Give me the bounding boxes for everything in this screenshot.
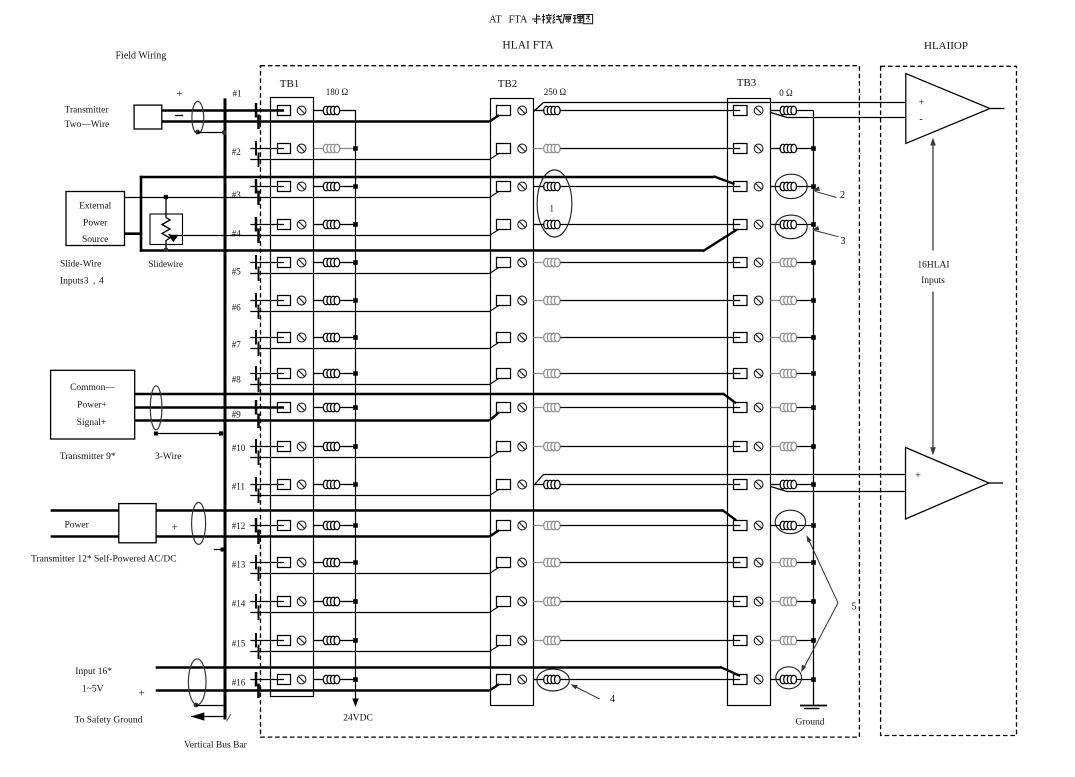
ground symbol — [800, 706, 827, 709]
terminal TB1-13 — [278, 558, 291, 568]
terminal TB3-10 — [734, 442, 748, 452]
bold rail to TB3-4 — [140, 230, 737, 252]
wire TB2-10 to 250 ohm coil — [533, 446, 543, 448]
wire TB3-6 to 0 ohm coil — [771, 300, 781, 302]
screw TB2-6 — [518, 296, 527, 305]
wire TB3-11 to 0 ohm coil — [771, 484, 781, 486]
op-amp U2 output — [989, 482, 1003, 484]
svg-text:Source: Source — [82, 235, 108, 245]
wire 0 ohm coil ch6 to ground bus — [797, 298, 816, 303]
wire TB3-13 to 0 ohm coil — [771, 562, 781, 564]
callout 4 ellipse around 250 ohm ch16 — [537, 669, 569, 691]
callout 4 arrow and label — [571, 684, 616, 705]
inductor 180 ohm ch6 — [323, 296, 339, 305]
wire 0 ohm coil ch2 to ground bus — [797, 146, 816, 151]
callout 3 ellipse around 0 ohm ch4 — [775, 215, 807, 239]
screw TB3-2 — [754, 144, 763, 153]
terminal TB2-2 — [497, 144, 511, 154]
wire TB1-10 to 180 ohm coil — [314, 446, 324, 448]
wire TB2-9 to 250 ohm coil — [533, 407, 543, 409]
svg-text:Transmitter 9*: Transmitter 9* — [60, 452, 116, 462]
wire 180 ohm coil ch14 to 24VDC bus — [340, 599, 358, 604]
wire 0 ohm coil ch7 to ground bus — [797, 335, 816, 340]
inductor 250 ohm ch11 — [544, 480, 560, 489]
wire 0 ohm coil ch1 to ground bus — [797, 110, 814, 112]
wire 180 ohm coil ch4 to 24VDC bus — [340, 222, 358, 227]
wire TB2-14 to 250 ohm coil — [533, 601, 543, 603]
shield drain ch1 to bus bar — [195, 130, 226, 135]
inductor 250 ohm ch7 — [544, 333, 560, 342]
inductor 180 ohm ch11 — [323, 480, 339, 489]
screw TB3-12 — [754, 521, 763, 530]
wire TB2-1 to 250 ohm coil — [533, 110, 543, 112]
screw TB1-1 — [297, 106, 306, 115]
wire TB3-3 to 0 ohm coil — [771, 186, 781, 188]
wire ch5 lower to TB2-5 — [250, 267, 499, 273]
connector pins ch8 — [256, 366, 259, 392]
label #10 — [232, 443, 246, 453]
wire TB3-8 to 0 ohm coil — [771, 373, 781, 375]
terminal TB2-8 — [497, 369, 511, 379]
connector pins ch14 — [256, 594, 259, 620]
wire 180 ohm coil ch2 to 24VDC bus — [340, 146, 358, 151]
wire ch9 Power+ to TB1-9 — [135, 406, 284, 409]
wire 0 ohm coil ch14 to ground bus — [797, 599, 816, 604]
wire ch11 + sense to op-amp U2 — [534, 475, 905, 486]
wire ch1 lower to TB2-1 — [162, 115, 499, 121]
inductor 0 ohm ch16 — [780, 675, 796, 684]
wire ch6 upper stub to TB1-6 — [250, 300, 284, 302]
screw TB1-9 — [297, 403, 306, 412]
wire ch14 lower to TB2-14 — [250, 606, 499, 612]
inductor 250 ohm ch2 — [544, 144, 560, 153]
screw TB2-2 — [518, 144, 527, 153]
wire TB2-12 to 250 ohm coil — [533, 525, 543, 527]
wire 250 ohm coil ch5 to TB3-5 — [560, 262, 740, 264]
callout 3 arrow and label — [812, 226, 846, 247]
svg-text:180 Ω: 180 Ω — [326, 87, 349, 97]
screw TB1-5 — [297, 258, 306, 267]
terminal TB1-11 — [278, 480, 291, 490]
wire ch4 upper stub to TB1-4 — [250, 224, 284, 226]
screw TB3-7 — [754, 333, 763, 342]
screw TB2-11 — [518, 480, 527, 489]
inductor 0 ohm ch2 — [780, 144, 796, 153]
label #6 — [232, 303, 242, 313]
svg-text:Common—: Common— — [70, 383, 115, 393]
terminal TB1-10 — [278, 442, 291, 452]
screw TB3-10 — [754, 442, 763, 451]
wire ch10 lower to TB2-10 — [250, 451, 499, 457]
wire 180 ohm coil ch1 to 24VDC bus — [340, 110, 356, 112]
screw TB3-15 — [754, 636, 763, 645]
title AT FTA wiring diagram — [489, 14, 593, 25]
screw TB1-4 — [297, 220, 306, 229]
inductor 0 ohm ch15 — [780, 636, 796, 645]
bold wire ch16 input - to TB3-16 — [156, 667, 740, 676]
inductor 250 ohm ch10 — [544, 442, 560, 451]
wire TB1-2 to 180 ohm coil — [314, 148, 324, 150]
wire 0 ohm coil ch3 to ground bus — [797, 184, 816, 189]
terminal TB1-3 — [278, 182, 291, 192]
svg-text:TB1: TB1 — [280, 78, 300, 90]
inductor 180 ohm ch4 — [323, 220, 339, 229]
inductor 180 ohm ch16 — [323, 675, 339, 684]
svg-text:TB2: TB2 — [498, 78, 518, 90]
label Slide-Wire Inputs3,4 — [60, 260, 104, 287]
wire ch6 lower to TB2-6 — [250, 305, 499, 311]
bold wire ch12 to TB3-12 — [156, 510, 736, 520]
wire TB1-4 to 180 ohm coil — [314, 224, 324, 226]
wire TB1-11 to 180 ohm coil — [314, 484, 324, 486]
terminal TB1-16 — [278, 675, 291, 685]
inductor 0 ohm ch11 — [780, 480, 796, 489]
inductor 250 ohm ch8 — [544, 369, 560, 378]
svg-text:#5: #5 — [232, 267, 242, 277]
wire 250 ohm coil ch1 to TB3-1 — [560, 110, 740, 112]
connector pins ch10 — [256, 439, 259, 465]
shield drain ch9 to bus bar — [154, 431, 223, 435]
terminal TB2-12 — [497, 521, 511, 531]
screw TB2-7 — [518, 333, 527, 342]
wire 180 ohm coil ch11 to 24VDC bus — [340, 482, 358, 487]
wire ch11 upper stub to TB1-11 — [250, 484, 284, 486]
wire TB2-2 to 250 ohm coil — [533, 148, 543, 150]
to safety ground arrow — [191, 712, 224, 720]
inductor 0 ohm ch9 — [780, 403, 796, 412]
wire stubs left of self-powered box — [51, 511, 119, 537]
terminal TB3-12 — [734, 521, 748, 531]
wire 250 ohm coil ch15 to TB3-15 — [560, 640, 740, 642]
wire 180 ohm coil ch10 to 24VDC bus — [340, 444, 358, 449]
connector pins ch15 — [256, 633, 259, 659]
wire 0 ohm coil ch10 to ground bus — [797, 444, 816, 449]
inductor 250 ohm ch16 — [544, 675, 560, 684]
svg-text:+: + — [139, 688, 145, 700]
wire TB2-15 to 250 ohm coil — [533, 640, 543, 642]
label 0 ohm — [779, 88, 793, 98]
inductor 180 ohm ch14 — [323, 597, 339, 606]
wire TB3-1 to 0 ohm coil — [771, 110, 781, 112]
op-amp U1 — [906, 74, 990, 144]
wire ch16 lower to TB2-16 — [156, 684, 499, 690]
terminal TB3-15 — [734, 636, 748, 646]
svg-text:1: 1 — [550, 204, 555, 214]
terminal TB1-4 — [278, 220, 291, 230]
terminal block TB3 — [728, 77, 771, 706]
svg-text:Field Wiring: Field Wiring — [116, 51, 167, 62]
inductor 0 ohm ch10 — [780, 442, 796, 451]
vertical bus bar — [225, 98, 231, 721]
callout 1 ellipse around 250 ohm ch3/ch4 — [537, 170, 572, 237]
label - ch1 — [175, 115, 183, 117]
svg-text:#13: #13 — [232, 560, 246, 570]
svg-text:2: 2 — [840, 190, 845, 201]
inductor 250 ohm ch14 — [544, 597, 560, 606]
HLAI FTA dashed enclosure — [261, 66, 860, 737]
connector pins ch7 — [256, 330, 259, 356]
terminal block TB1 — [271, 78, 314, 697]
terminal TB2-14 — [497, 597, 511, 607]
screw TB3-13 — [754, 558, 763, 567]
wire TB3-15 to 0 ohm coil — [771, 640, 781, 642]
label #13 — [232, 560, 246, 570]
svg-text:#2: #2 — [232, 147, 241, 157]
inductor 180 ohm ch3 — [323, 182, 339, 191]
wire TB2-5 to 250 ohm coil — [533, 262, 543, 264]
wire TB1-12 to 180 ohm coil — [314, 525, 324, 527]
label #16 — [232, 678, 246, 688]
wire TB2-3 to 250 ohm coil — [533, 186, 543, 188]
label Transmitter Two-Wire — [65, 106, 110, 130]
inductor 180 ohm ch5 — [323, 258, 339, 267]
screw TB2-3 — [518, 182, 527, 191]
svg-text:#3: #3 — [232, 190, 242, 200]
wire ch1 + sense to op-amp U1 — [534, 103, 906, 112]
wire 250 ohm coil ch14 to TB3-14 — [560, 601, 740, 603]
terminal TB2-9 — [497, 403, 511, 413]
inductor 180 ohm ch2 — [323, 144, 339, 153]
wire 250 ohm coil ch3 to TB3-3 — [560, 186, 740, 188]
wire 250 ohm coil ch10 to TB3-10 — [560, 446, 740, 448]
connector pins ch9 — [256, 400, 259, 428]
terminal TB3-13 — [734, 558, 748, 568]
screw TB3-1 — [754, 106, 763, 115]
screw TB3-3 — [754, 182, 763, 191]
label #1 — [233, 89, 242, 99]
terminal TB3-1 — [734, 106, 748, 116]
connector pins ch13 — [256, 555, 259, 581]
wire ch11 - sense to op-amp U2 — [771, 487, 906, 492]
wire 250 ohm coil ch2 to TB3-2 — [560, 148, 740, 150]
wire TB3-10 to 0 ohm coil — [771, 446, 781, 448]
svg-text:Two—Wire: Two—Wire — [65, 120, 110, 130]
HLAIIOP dashed enclosure — [881, 66, 1017, 735]
label External Power Source — [79, 202, 112, 246]
bold riser ch3/ch4 — [140, 176, 143, 252]
wire ch11 lower to TB2-11 — [250, 489, 499, 495]
label #11 — [232, 482, 245, 492]
svg-text:3-Wire: 3-Wire — [155, 452, 182, 462]
svg-text:3: 3 — [840, 236, 845, 247]
svg-text:External: External — [79, 202, 112, 212]
wire 250 ohm coil ch7 to TB3-7 — [560, 337, 740, 339]
inductor 180 ohm ch15 — [323, 636, 339, 645]
wire 180 ohm coil ch8 to 24VDC bus — [340, 371, 358, 376]
connector pins ch11 — [256, 477, 259, 503]
cable marker ellipse ch1 — [192, 101, 204, 133]
label Power ch12 — [65, 521, 90, 531]
svg-text:Power+: Power+ — [77, 401, 107, 411]
label #14 — [232, 599, 246, 609]
wire TB3-2 to 0 ohm coil — [771, 148, 781, 150]
label Common- Power+ Signal+ — [70, 383, 115, 428]
screw TB2-14 — [518, 597, 527, 606]
wire 250 ohm coil ch6 to TB3-6 — [560, 300, 740, 302]
terminal TB3-8 — [734, 369, 748, 379]
svg-text:Input 16*: Input 16* — [75, 667, 112, 677]
terminal TB2-4 — [497, 220, 511, 230]
16HLAI inputs double arrow — [930, 138, 936, 456]
wire ch12 upper stub to TB1-12 — [250, 525, 284, 527]
screw TB3-16 — [754, 675, 763, 684]
wire TB1-6 to 180 ohm coil — [314, 300, 324, 302]
inductor 0 ohm ch4 — [780, 220, 796, 229]
wire ch9 lower to TB2-9 — [135, 412, 499, 420]
terminal TB1-14 — [278, 597, 291, 607]
screw TB1-11 — [297, 480, 306, 489]
terminal TB2-15 — [497, 636, 511, 646]
svg-text:Slidewire: Slidewire — [149, 259, 184, 269]
wire ch13 upper stub to TB1-13 — [250, 562, 284, 564]
svg-text:#10: #10 — [232, 443, 246, 453]
inductor 250 ohm ch9 — [544, 403, 560, 412]
wire external power - to bold riser — [125, 232, 143, 235]
wire TB3-7 to 0 ohm coil — [771, 337, 781, 339]
terminal TB1-7 — [278, 333, 291, 343]
wire ch8 upper stub to TB1-8 — [250, 373, 284, 375]
svg-text:Power: Power — [83, 219, 108, 229]
inductor 0 ohm ch12 — [780, 521, 796, 530]
transmitter self-powered box — [119, 504, 156, 543]
svg-text:4: 4 — [99, 277, 104, 287]
svg-text:#1: #1 — [233, 89, 242, 99]
inductor 0 ohm ch1 — [780, 106, 796, 115]
wire TB1-1 to 180 ohm coil — [314, 110, 324, 112]
wire 0 ohm coil ch13 to ground bus — [797, 560, 816, 565]
cable marker ellipse ch12 — [192, 502, 206, 544]
callout 2 arrow and label — [813, 187, 846, 202]
inductor 0 ohm ch5 — [780, 258, 796, 267]
inductor 250 ohm ch13 — [544, 558, 560, 567]
screw TB3-6 — [754, 296, 763, 305]
wire ch5 upper stub to TB1-5 — [250, 262, 284, 264]
terminal TB1-9 — [278, 403, 291, 413]
svg-text:TB3: TB3 — [737, 77, 757, 89]
label Transmitter 9* 3-Wire — [60, 452, 182, 462]
terminal TB2-3 — [497, 182, 511, 192]
label 250 ohm — [544, 87, 567, 97]
terminal TB2-13 — [497, 558, 511, 568]
screw TB3-5 — [754, 258, 763, 267]
screw TB2-8 — [518, 369, 527, 378]
inductor 0 ohm ch13 — [780, 558, 796, 567]
svg-text:Transmitter: Transmitter — [65, 106, 110, 116]
wire 250 ohm coil ch12 to TB3-12 — [560, 525, 740, 527]
svg-text:To Safety Ground: To Safety Ground — [75, 714, 143, 725]
screw TB2-12 — [518, 521, 527, 530]
terminal TB1-2 — [278, 144, 291, 154]
shield drain ch16 to bus bar — [194, 703, 224, 708]
wire TB2-16 to 250 ohm coil — [533, 679, 543, 681]
wire TB3-4 to 0 ohm coil — [771, 224, 781, 226]
svg-text:24VDC: 24VDC — [343, 714, 373, 724]
wire 250 ohm coil ch11 to TB3-11 — [560, 484, 740, 486]
svg-text:Slide-Wire: Slide-Wire — [60, 260, 101, 270]
svg-text:#14: #14 — [232, 599, 246, 609]
slidewire wiper arrow — [168, 234, 178, 243]
transmitter 3-wire box — [51, 370, 135, 439]
callout 5 ellipse around 0 ohm ch12 — [775, 510, 805, 533]
wire ch3 lower to TB2-3 — [125, 191, 500, 197]
wire 250 ohm coil ch8 to TB3-8 — [560, 373, 740, 375]
wire ch1 + from transmitter to TB1-1 — [162, 109, 284, 112]
terminal TB3-16 — [734, 675, 748, 685]
wire ch4 lower to TB2-4 — [171, 229, 499, 235]
svg-text:5: 5 — [851, 602, 856, 613]
wire TB3-14 to 0 ohm coil — [771, 601, 781, 603]
label Ground — [795, 718, 824, 728]
wire TB3-16 to 0 ohm coil — [771, 679, 781, 681]
slidewire box — [150, 214, 183, 245]
screw TB2-9 — [518, 403, 527, 412]
svg-text:+: + — [176, 88, 182, 100]
terminal TB2-11 — [497, 480, 511, 490]
terminal TB1-1 — [278, 106, 291, 116]
wire TB3-12 to 0 ohm coil — [771, 525, 781, 527]
wire 0 ohm coil ch11 to ground bus — [797, 482, 816, 487]
inductor 180 ohm ch10 — [323, 442, 339, 451]
inductor 250 ohm ch3 — [544, 182, 560, 191]
wire TB2-7 to 250 ohm coil — [533, 337, 543, 339]
svg-text:Inputs: Inputs — [921, 276, 945, 286]
wire 180 ohm coil ch3 to 24VDC bus — [340, 184, 358, 189]
svg-text:#12: #12 — [232, 521, 246, 531]
connector pins ch3 — [256, 179, 259, 205]
screw TB2-13 — [518, 558, 527, 567]
svg-text:16HLAI: 16HLAI — [917, 261, 949, 271]
svg-text:#16: #16 — [232, 678, 246, 688]
inductor 180 ohm ch12 — [323, 521, 339, 530]
wire 0 ohm coil ch5 to ground bus — [797, 260, 816, 265]
op-amp U2 — [906, 448, 990, 520]
screw TB2-5 — [518, 258, 527, 267]
callout 5 ellipse around 0 ohm ch16 — [776, 667, 802, 689]
screw TB1-14 — [297, 597, 306, 606]
svg-text:-: - — [919, 114, 922, 125]
svg-text:#6: #6 — [232, 303, 242, 313]
wire ch1 - sense to op-amp U1 — [771, 113, 906, 118]
svg-text:#4: #4 — [232, 229, 242, 239]
wire TB2-6 to 250 ohm coil — [533, 300, 543, 302]
screw TB3-9 — [754, 403, 763, 412]
inductor 250 ohm ch5 — [544, 258, 560, 267]
screw TB2-4 — [518, 220, 527, 229]
inductor 180 ohm ch7 — [323, 333, 339, 342]
svg-text:1~5V: 1~5V — [82, 685, 104, 695]
svg-text:,: , — [93, 277, 95, 287]
label #2 — [232, 147, 241, 157]
wire TB1-14 to 180 ohm coil — [314, 601, 324, 603]
screw TB3-4 — [754, 220, 763, 229]
terminal TB3-5 — [734, 258, 748, 268]
label 16HLAI Inputs — [917, 261, 949, 287]
op-amp U1 output — [990, 108, 1005, 110]
screw TB1-8 — [297, 369, 306, 378]
wire TB1-7 to 180 ohm coil — [314, 337, 324, 339]
inductor 180 ohm ch8 — [323, 369, 339, 378]
ground bus — [813, 111, 815, 706]
svg-text:#15: #15 — [232, 639, 246, 649]
svg-text:Ground: Ground — [795, 718, 824, 728]
terminal TB2-5 — [497, 258, 511, 268]
screw TB1-2 — [297, 144, 306, 153]
bold rail to TB3-3 — [140, 176, 735, 184]
inductor 0 ohm ch3 — [780, 182, 796, 191]
wire ch12 lower to TB2-12 — [156, 530, 499, 536]
screw TB2-16 — [518, 675, 527, 684]
junction power+/slidewire top — [164, 195, 168, 199]
